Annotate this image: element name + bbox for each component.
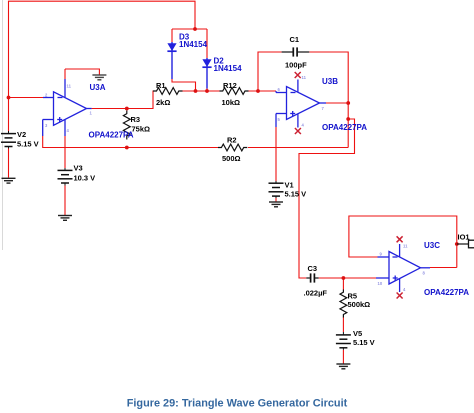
battery V1 <box>269 181 284 198</box>
battery V3 <box>58 168 73 186</box>
connector IO1 <box>457 240 474 248</box>
ground below V3 <box>58 216 72 221</box>
svg-text:1N4154: 1N4154 <box>179 40 208 49</box>
svg-text:5.15 V: 5.15 V <box>285 190 307 199</box>
wire <box>326 102 348 104</box>
op-amp U3C <box>376 244 430 292</box>
svg-text:R3: R3 <box>131 115 141 124</box>
wire <box>258 52 282 91</box>
wire <box>342 317 344 332</box>
svg-text:U3B: U3B <box>322 77 338 86</box>
svg-text:C1: C1 <box>290 35 300 44</box>
svg-text:5.15 V: 5.15 V <box>353 338 375 347</box>
svg-text:V1: V1 <box>285 181 294 190</box>
svg-text:10: 10 <box>378 281 383 286</box>
op-amp U3B <box>276 80 326 128</box>
pin number labels <box>45 75 426 292</box>
node U3A-out <box>125 107 129 111</box>
svg-text:500kΩ: 500kΩ <box>348 300 371 309</box>
wire <box>319 277 376 279</box>
svg-text:100pF: 100pF <box>285 61 307 70</box>
ground below V2 <box>2 178 16 183</box>
svg-text:75kΩ: 75kΩ <box>132 125 151 134</box>
wire <box>342 278 344 290</box>
svg-text:500Ω: 500Ω <box>222 154 241 163</box>
wire <box>342 350 344 364</box>
X marker U3B pin4 <box>295 128 301 134</box>
svg-text:OPA4227PA: OPA4227PA <box>89 131 134 140</box>
wire <box>42 136 44 148</box>
resistor R1 <box>153 88 182 95</box>
svg-text:U3A: U3A <box>90 83 106 92</box>
wire <box>430 267 457 269</box>
capacitor C1 <box>282 47 310 56</box>
node U3B-out-branch <box>346 117 350 121</box>
svg-text:11: 11 <box>403 244 408 249</box>
X marker U3C pin11 <box>397 236 403 242</box>
wire <box>64 136 66 168</box>
svg-text:R12: R12 <box>223 81 237 90</box>
resistor R2 <box>218 144 247 151</box>
resistor R5 (vertical) <box>340 290 347 318</box>
wire <box>9 1 196 131</box>
diode D2 <box>202 58 211 89</box>
X marker U3C pin4 <box>397 293 403 299</box>
wire <box>249 90 277 92</box>
junction node dots <box>7 27 459 280</box>
svg-text:R2: R2 <box>227 136 237 145</box>
battery V5 <box>336 332 351 350</box>
resistor R3 (vertical) <box>123 111 130 140</box>
wire <box>349 216 457 268</box>
wire <box>172 28 207 30</box>
svg-text:5.15 V: 5.15 V <box>17 140 39 149</box>
wire <box>309 52 348 148</box>
svg-text:2kΩ: 2kΩ <box>156 98 170 107</box>
svg-text:V2: V2 <box>17 130 26 139</box>
wire <box>172 79 196 91</box>
X marker U3B pin11 <box>295 72 301 78</box>
svg-text:Figure 29: Triangle Wave Gener: Figure 29: Triangle Wave Generator Circu… <box>127 398 348 410</box>
wire <box>64 69 66 79</box>
node R3-bottom <box>125 146 129 150</box>
wire <box>275 198 277 202</box>
svg-text:OPA4227PA: OPA4227PA <box>424 288 469 297</box>
svg-text:OPA4227PA: OPA4227PA <box>322 123 367 132</box>
op-amp U3A <box>43 79 92 136</box>
node diode-top <box>193 27 197 31</box>
battery V2 <box>1 131 16 149</box>
wire <box>171 29 173 42</box>
svg-text:10kΩ: 10kΩ <box>222 98 241 107</box>
wire <box>206 29 208 58</box>
node IO1 <box>455 242 459 246</box>
wire <box>183 90 220 92</box>
svg-text:C3: C3 <box>308 264 318 273</box>
node D3-bottom <box>194 89 198 93</box>
svg-text:V3: V3 <box>74 164 83 173</box>
wire <box>275 127 277 181</box>
wire <box>65 69 99 75</box>
svg-text:1N4154: 1N4154 <box>214 64 243 73</box>
svg-text:11: 11 <box>67 84 72 89</box>
node R12-C1 <box>256 89 260 93</box>
svg-text:R1: R1 <box>156 81 166 90</box>
wire <box>299 119 355 278</box>
resistor R12 <box>220 88 249 95</box>
node V2-inv <box>7 96 11 100</box>
wire <box>9 97 44 99</box>
svg-text:V5: V5 <box>353 329 362 338</box>
node D2-bottom <box>205 89 209 93</box>
node C3-R5 <box>342 276 346 280</box>
wire <box>8 149 10 178</box>
svg-text:IO1: IO1 <box>458 233 470 242</box>
ground U3A supply <box>92 75 106 80</box>
svg-text:10.3 V: 10.3 V <box>74 174 96 183</box>
page border line <box>2 0 4 250</box>
wire <box>248 147 348 149</box>
diode D3 <box>167 42 176 79</box>
svg-text:U3C: U3C <box>424 241 440 250</box>
wire <box>43 147 218 149</box>
capacitor C3 <box>306 273 318 282</box>
wire <box>92 91 157 109</box>
ground below V1 <box>269 202 283 207</box>
svg-text:11: 11 <box>302 75 307 80</box>
wire <box>206 89 208 92</box>
ground below V5 <box>336 364 350 369</box>
svg-text:.022µF: .022µF <box>304 289 328 298</box>
wire <box>64 186 66 216</box>
node U3B-out <box>346 101 350 105</box>
